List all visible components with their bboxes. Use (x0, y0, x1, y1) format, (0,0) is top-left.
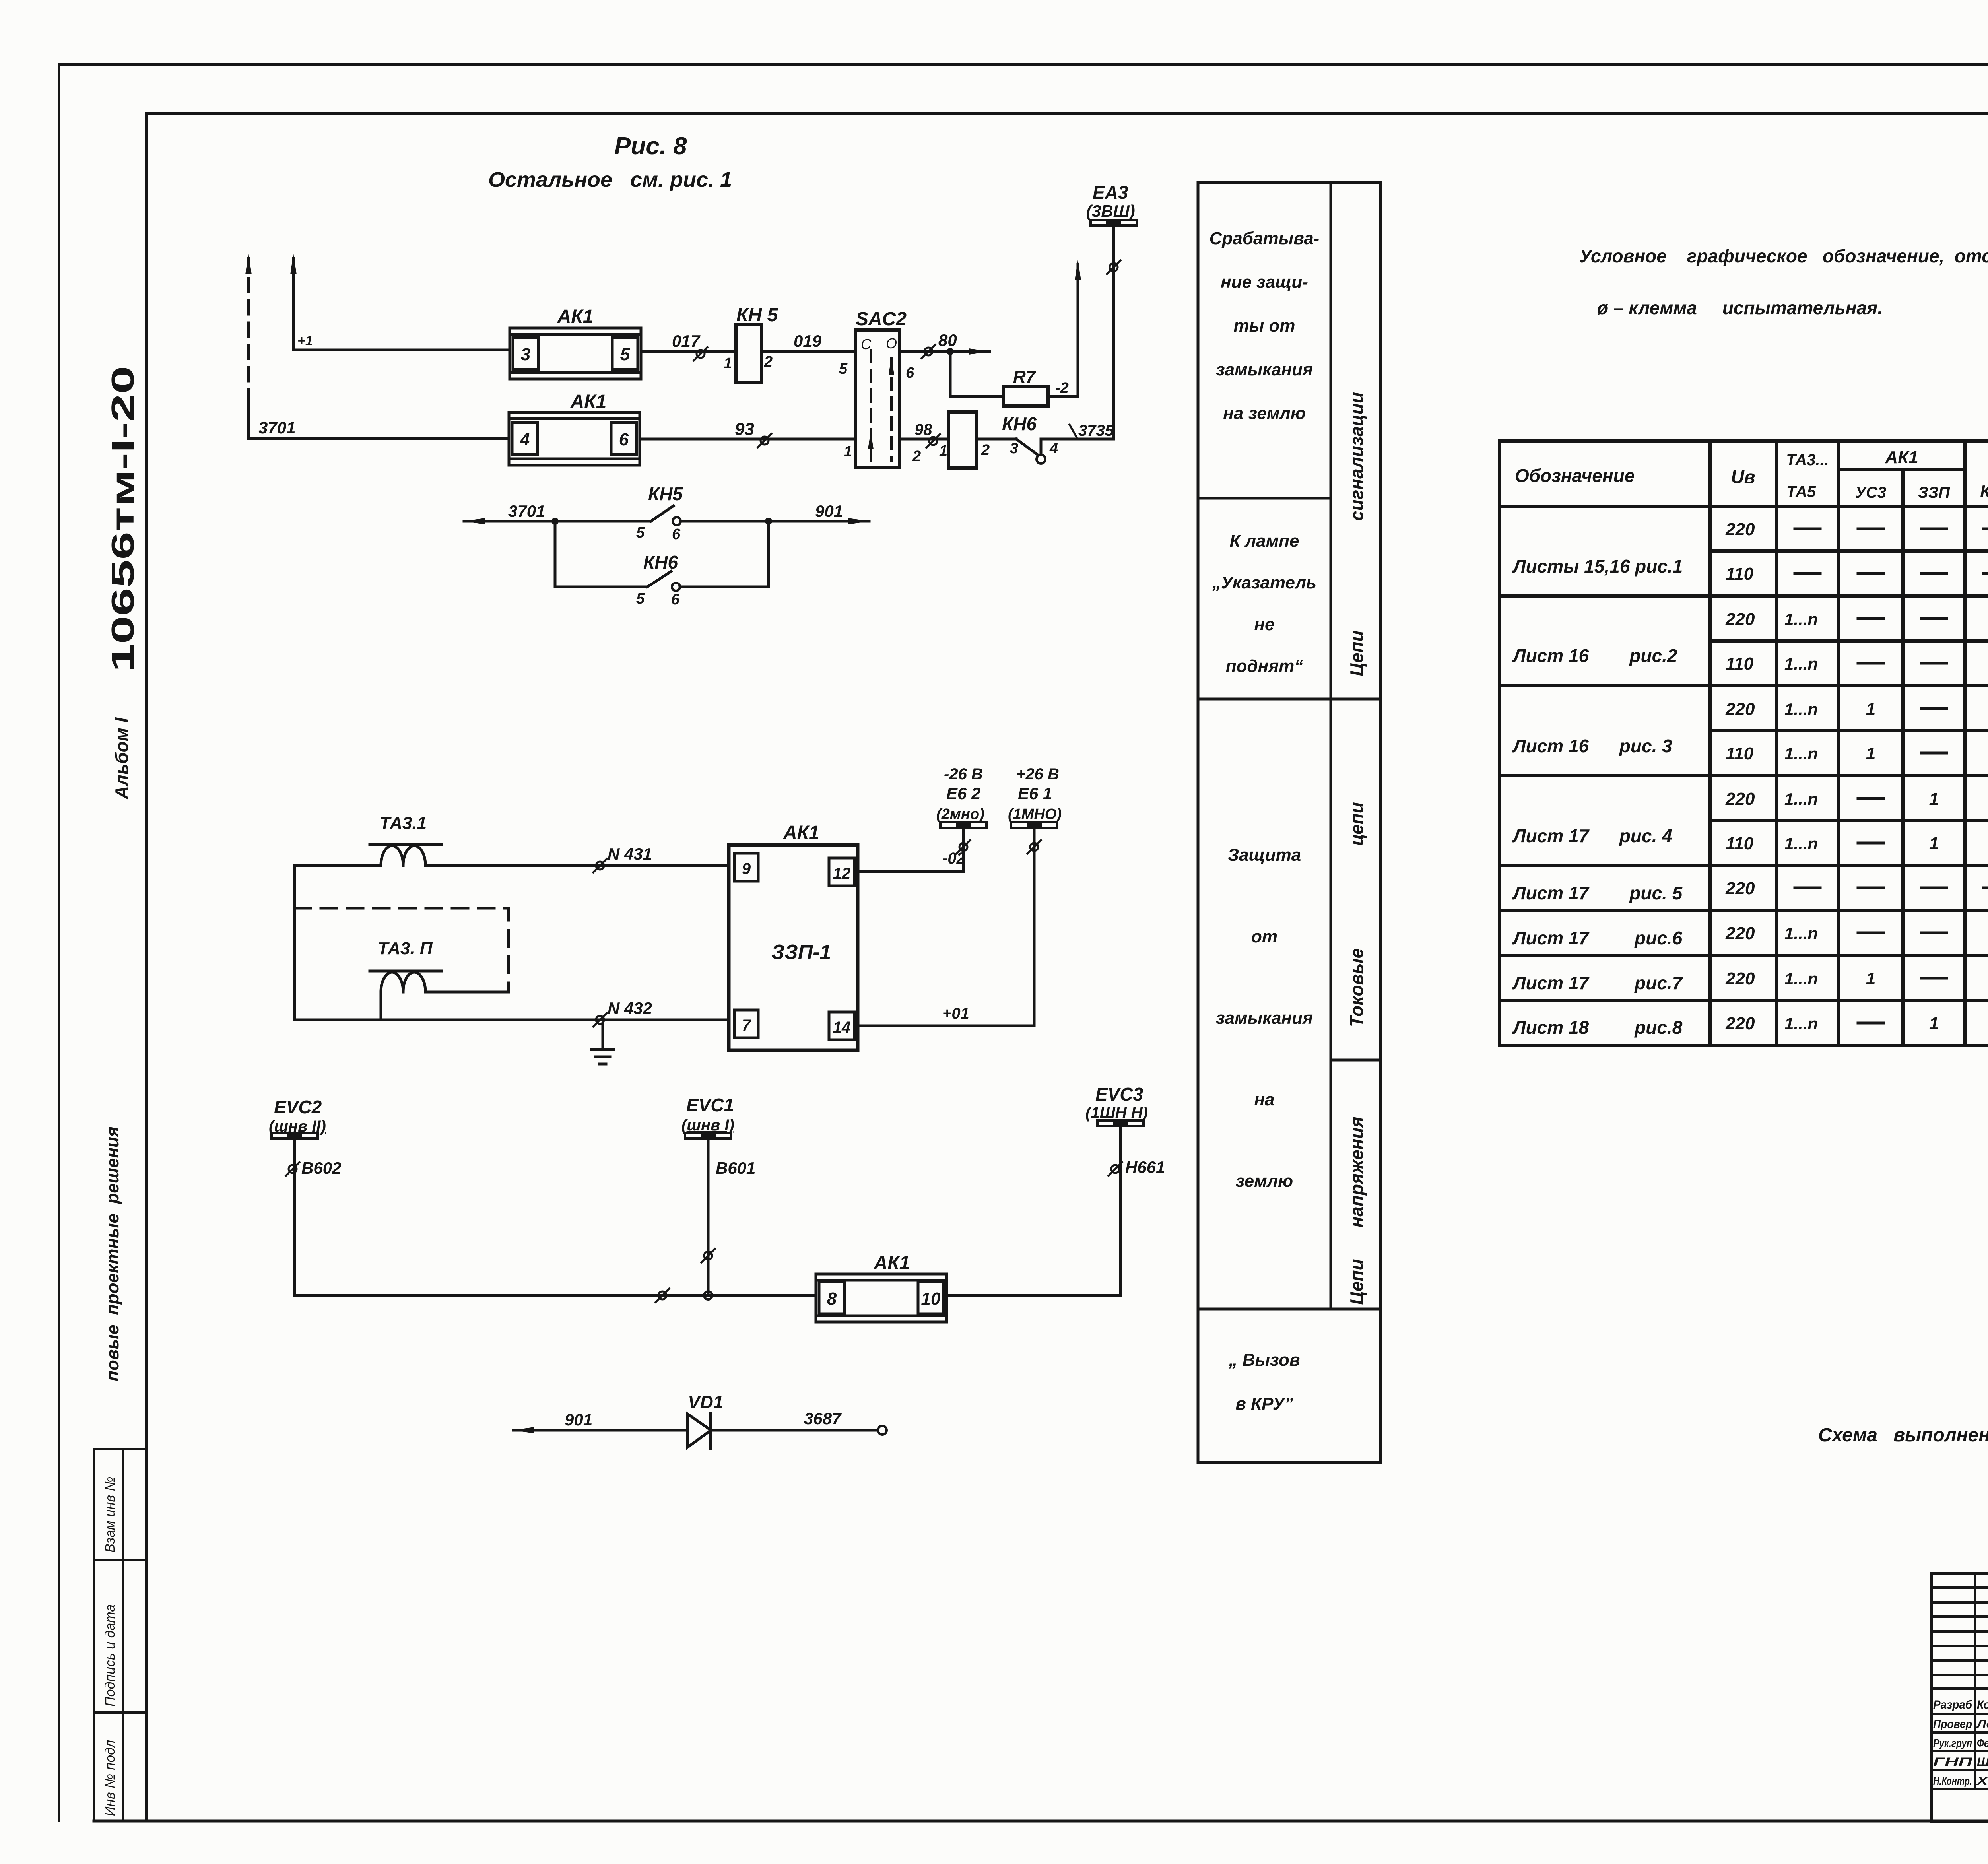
svg-text:АК1: АК1 (557, 306, 594, 327)
svg-text:110: 110 (1726, 564, 1754, 584)
svg-text:10656тм-I-20: 10656тм-I-20 (105, 366, 140, 672)
svg-text:3: 3 (1010, 440, 1018, 457)
wire 80 with arrow (899, 350, 990, 353)
svg-text:напряжения: напряжения (1346, 1116, 1367, 1227)
junction circle (704, 1291, 712, 1299)
open terminal circle (878, 1426, 887, 1435)
svg-text:220: 220 (1725, 610, 1755, 629)
svg-text:Цепи: Цепи (1346, 630, 1367, 676)
switch KH5 fixed circle (673, 517, 681, 525)
svg-text:6: 6 (671, 591, 680, 608)
svg-text:14: 14 (833, 1019, 851, 1036)
svg-text:(1ШН Н): (1ШН Н) (1085, 1104, 1148, 1122)
terminal EVC2 (ShNV II) (272, 1133, 318, 1138)
wire 019 (761, 350, 855, 353)
CT TA3.P (370, 971, 441, 992)
svg-text:SAC2: SAC2 (856, 309, 907, 330)
left margin stamp table (94, 1449, 147, 1821)
svg-text:1...n: 1...n (1784, 1014, 1818, 1033)
terminal EA3 riser (1112, 225, 1115, 439)
svg-text:Провер: Провер (1933, 1718, 1972, 1731)
svg-text:Хмелев: Хмелев (1976, 1775, 1988, 1788)
svg-text:замыкания: замыкания (1216, 1008, 1313, 1028)
wire 98 (899, 438, 948, 441)
svg-text:Остальное см. рис. 1: Остальное см. рис. 1 (488, 168, 732, 192)
wire to resistor R7 (950, 351, 1004, 396)
switch SAC2 (855, 330, 899, 468)
svg-text:110: 110 (1726, 834, 1754, 853)
terminal E61 (1MNO) (1011, 822, 1057, 828)
svg-text:К лампе: К лампе (1229, 531, 1299, 551)
wire to 901 (681, 520, 869, 523)
ground symbol (592, 1025, 614, 1064)
svg-text:3687: 3687 (804, 1409, 842, 1428)
terminal E61 riser (1033, 828, 1036, 1026)
svg-text:1: 1 (1866, 744, 1875, 763)
relay AK1 contact 8-10 (816, 1274, 947, 1322)
svg-text:Рис. 8: Рис. 8 (614, 132, 687, 160)
svg-text:93: 93 (735, 419, 754, 439)
svg-text:АК1: АК1 (783, 822, 819, 843)
wire 3735 (1040, 439, 1043, 455)
svg-text:Н.Контр.: Н.Контр. (1933, 1775, 1972, 1788)
svg-text:Лоткова: Лоткова (1976, 1718, 1988, 1731)
svg-text:Лист 17 рис.6: Лист 17 рис.6 (1512, 928, 1683, 948)
svg-text:EVC2: EVC2 (274, 1097, 322, 1117)
svg-text:Лист 17 рис. 5: Лист 17 рис. 5 (1512, 883, 1683, 903)
svg-text:КН5: КН5 (648, 483, 683, 504)
relay AK1 earth-fault unit ZZP-1 (729, 845, 858, 1050)
svg-text:901: 901 (815, 502, 843, 520)
svg-text:2: 2 (981, 442, 990, 458)
wire N431 (425, 864, 729, 867)
svg-text:(3ВШ): (3ВШ) (1086, 202, 1135, 220)
EVC2 riser (293, 1138, 296, 1295)
svg-text:не: не (1254, 615, 1274, 634)
svg-text:019: 019 (794, 332, 822, 350)
svg-text:1...n: 1...n (1784, 610, 1818, 629)
svg-text:VD1: VD1 (688, 1392, 723, 1412)
test clamp 98 (926, 434, 940, 448)
svg-text:(шнв II): (шнв II) (269, 1118, 326, 1135)
svg-text:(шнв I): (шнв I) (681, 1116, 734, 1134)
CT TA3.1 (370, 845, 441, 866)
svg-text:2: 2 (764, 353, 773, 370)
terminal E62 (2MNO) (940, 822, 986, 828)
svg-text:Условное графическое обоз: Условное графическое обозначение, отсутс… (1579, 246, 1988, 266)
svg-text:1: 1 (1866, 969, 1875, 988)
svg-text:1...n: 1...n (1784, 654, 1818, 673)
push button KH6 (948, 412, 977, 468)
terminal EVC3 (1ShNN) (1097, 1120, 1143, 1126)
wire left leg (295, 864, 381, 867)
svg-text:В602: В602 (301, 1159, 341, 1177)
wire 93 (640, 438, 855, 441)
svg-text:АК1: АК1 (874, 1252, 910, 1274)
test clamp 017 (694, 347, 707, 361)
svg-text:3: 3 (521, 345, 530, 364)
svg-text:Лист 16 рис.2: Лист 16 рис.2 (1512, 645, 1677, 666)
svg-text:Федоровская: Федоровская (1977, 1737, 1988, 1750)
svg-text:О: О (886, 335, 897, 351)
svg-text:КН 5: КН 5 (736, 305, 779, 326)
relay AK1 contact 3-5 (510, 328, 641, 379)
svg-text:4: 4 (520, 430, 530, 449)
svg-text:220: 220 (1725, 699, 1755, 719)
test clamp B602 (286, 1162, 299, 1176)
svg-text:Токовые: Токовые (1346, 948, 1367, 1027)
svg-text:ты от: ты от (1234, 316, 1295, 336)
svg-text:N 432: N 432 (608, 999, 652, 1017)
KH6 branch return wire (680, 521, 769, 587)
svg-text:3701: 3701 (508, 502, 545, 520)
svg-text:80: 80 (938, 331, 957, 349)
svg-text:Схема выполнена на лист: Схема выполнена на листах 15, 16, 17, 18… (1818, 1425, 1988, 1446)
svg-text:1: 1 (844, 443, 852, 460)
svg-text:+26 В: +26 В (1016, 765, 1059, 783)
push button KH5 (736, 325, 761, 382)
svg-text:R7: R7 (1013, 367, 1037, 386)
svg-text:замыкания: замыкания (1216, 360, 1313, 379)
circuit function band (1198, 183, 1380, 1462)
svg-text:1: 1 (1929, 789, 1939, 809)
svg-text:5: 5 (636, 524, 645, 541)
svg-text:Лист 18 рис.8: Лист 18 рис.8 (1512, 1017, 1683, 1038)
svg-text:1...n: 1...n (1784, 790, 1818, 808)
junction (947, 348, 954, 355)
svg-text:1: 1 (1866, 699, 1875, 719)
svg-text:землю: землю (1236, 1171, 1293, 1191)
wire +1 riser with arrow (293, 258, 510, 350)
svg-text:+1: +1 (297, 333, 313, 348)
svg-text:(2мно): (2мно) (936, 806, 984, 823)
svg-text:ТА3. П: ТА3. П (378, 939, 433, 958)
wire 3687 (711, 1429, 878, 1432)
test clamp 80 (922, 345, 935, 358)
svg-text:Листы 15,16 рис.1: Листы 15,16 рис.1 (1512, 556, 1683, 577)
svg-text:Цепи: Цепи (1346, 1259, 1367, 1305)
svg-text:ТА3.1: ТА3.1 (380, 814, 427, 833)
svg-text:8: 8 (827, 1289, 837, 1309)
test clamp EA3 (1107, 260, 1120, 274)
svg-text:220: 220 (1725, 520, 1755, 539)
wire right leg (425, 991, 509, 994)
svg-text:(1МНО): (1МНО) (1008, 806, 1062, 823)
svg-text:Альбом I: Альбом I (111, 717, 132, 800)
test clamp N432 (593, 1013, 607, 1027)
svg-text:Инв № подл: Инв № подл (103, 1740, 118, 1816)
test clamp 93 (758, 434, 771, 447)
wire 017 (641, 350, 736, 353)
svg-text:С: С (861, 336, 872, 352)
svg-text:220: 220 (1725, 1014, 1755, 1033)
svg-text:7: 7 (742, 1017, 751, 1034)
svg-text:10: 10 (921, 1289, 941, 1309)
svg-text:Разраб: Разраб (1933, 1698, 1972, 1711)
test clamp E61 (1027, 840, 1041, 854)
svg-text:12: 12 (833, 865, 851, 882)
svg-text:ние защи-: ние защи- (1221, 272, 1308, 292)
svg-text:„ Вызов: „ Вызов (1229, 1350, 1300, 1370)
terminal E62 riser (962, 828, 965, 872)
svg-text:+01: +01 (942, 1005, 969, 1022)
svg-text:УС3: УС3 (1855, 484, 1886, 501)
svg-text:220: 220 (1725, 969, 1755, 988)
svg-text:КН6: КН6 (643, 552, 678, 573)
wire N432 (295, 1019, 729, 1021)
svg-text:110: 110 (1726, 654, 1754, 674)
svg-text:N 431: N 431 (608, 845, 652, 863)
dashed link wire (295, 908, 509, 992)
wire 3701 riser (dashed) (247, 278, 250, 390)
svg-text:КН6: КН6 (1980, 482, 1988, 501)
svg-text:901: 901 (565, 1410, 592, 1429)
svg-text:-26 В: -26 В (944, 765, 983, 783)
svg-text:повые проектные решения: повые проектные решения (103, 1126, 122, 1381)
wire -2 riser with arrow (1048, 264, 1078, 396)
junction (551, 518, 559, 525)
test clamp H661 (1109, 1162, 1122, 1176)
svg-text:поднят“: поднят“ (1226, 656, 1303, 676)
svg-text:6: 6 (906, 365, 914, 381)
terminal EVC1 (ShNV I) (685, 1133, 731, 1138)
switch KH5 blade (651, 506, 674, 521)
svg-text:в КРУ”: в КРУ” (1235, 1394, 1293, 1414)
test clamp bus (656, 1289, 669, 1302)
svg-text:1: 1 (1929, 834, 1939, 853)
svg-text:„Указатель: „Указатель (1212, 573, 1316, 592)
svg-text:на: на (1254, 1090, 1274, 1109)
svg-text:Обозначение: Обозначение (1515, 465, 1635, 486)
svg-text:Лист 17 рис.7: Лист 17 рис.7 (1512, 973, 1683, 993)
svg-text:1...n: 1...n (1784, 744, 1818, 763)
test clamp N431 (593, 859, 607, 872)
voltage bus wire (295, 1294, 816, 1297)
svg-text:Рук.груп: Рук.груп (1933, 1737, 1972, 1750)
svg-text:Взам инв №: Взам инв № (103, 1477, 118, 1553)
svg-text:ø – клемма испытательная.: ø – клемма испытательная. (1597, 297, 1883, 318)
junction (765, 518, 772, 525)
EVC1 riser (707, 1138, 710, 1295)
svg-text:5: 5 (636, 590, 645, 607)
test clamp E62 (957, 840, 970, 854)
svg-text:3735: 3735 (1078, 422, 1114, 439)
contact KH6 blade (977, 438, 1016, 441)
pin box 14 (829, 1012, 854, 1040)
signature table (1932, 1573, 1988, 1822)
svg-text:1...n: 1...n (1784, 834, 1818, 853)
svg-text:110: 110 (1726, 744, 1754, 763)
svg-text:КН6: КН6 (1002, 414, 1037, 434)
svg-text:EVC1: EVC1 (686, 1095, 734, 1115)
svg-text:1...n: 1...n (1784, 700, 1818, 718)
wire left leg down (380, 992, 382, 1020)
resistor R7 (1004, 387, 1048, 406)
svg-text:Е6 1: Е6 1 (1018, 784, 1052, 803)
svg-text:6: 6 (619, 430, 629, 449)
svg-text:-02: -02 (942, 850, 965, 867)
switch KH6 fixed circle (672, 583, 680, 591)
svg-text:220: 220 (1725, 789, 1755, 809)
svg-text:1...n: 1...n (1784, 924, 1818, 943)
diode VD1 (687, 1414, 711, 1447)
EVC3 riser (1119, 1126, 1122, 1295)
svg-text:EVC3: EVC3 (1095, 1084, 1143, 1105)
svg-text:Срабатыва-: Срабатыва- (1209, 229, 1320, 248)
svg-text:от: от (1251, 927, 1277, 946)
KH6 branch wire (555, 521, 647, 587)
svg-text:1: 1 (939, 443, 947, 459)
svg-text:ТА5: ТА5 (1786, 483, 1816, 501)
svg-text:3701: 3701 (258, 418, 295, 437)
svg-text:ТА3...: ТА3... (1786, 451, 1829, 469)
left vertical wire (293, 866, 296, 1020)
svg-text:1...n: 1...n (1784, 969, 1818, 988)
svg-text:цепи: цепи (1346, 802, 1367, 846)
svg-text:Шифрина: Шифрина (1977, 1755, 1988, 1769)
svg-text:сигнализации: сигнализации (1346, 392, 1367, 521)
svg-text:98: 98 (914, 421, 932, 439)
svg-text:Лист 16 рис. 3: Лист 16 рис. 3 (1512, 736, 1672, 756)
svg-text:ЕА3: ЕА3 (1093, 182, 1128, 203)
pin box 7 (734, 1010, 758, 1038)
svg-text:Н661: Н661 (1125, 1158, 1165, 1177)
svg-text:ГНП: ГНП (1933, 1755, 1973, 1769)
svg-text:Е6 2: Е6 2 (946, 784, 980, 803)
svg-text:1: 1 (1929, 1014, 1939, 1033)
pin box 9 (734, 853, 758, 881)
wire 3701-901 (464, 520, 651, 523)
svg-text:АК1: АК1 (570, 391, 607, 412)
svg-text:220: 220 (1725, 924, 1755, 943)
svg-text:5: 5 (839, 361, 848, 377)
pin box 12 (829, 858, 854, 886)
contact KH6 fixed circle (1037, 455, 1045, 464)
svg-text:2: 2 (912, 448, 921, 465)
svg-text:4: 4 (1049, 440, 1058, 457)
svg-text:Корпунина: Корпунина (1977, 1698, 1988, 1711)
svg-text:1: 1 (724, 355, 732, 372)
wire 901 (513, 1429, 687, 1432)
svg-text:В601: В601 (716, 1159, 755, 1177)
svg-text:9: 9 (742, 860, 751, 878)
executions table grid (1500, 441, 1988, 1045)
svg-text:-2: -2 (1055, 380, 1069, 396)
svg-text:220: 220 (1725, 879, 1755, 898)
svg-text:ЗЗП-1: ЗЗП-1 (771, 941, 831, 964)
wire -02 (858, 870, 963, 873)
svg-text:5: 5 (620, 345, 630, 364)
svg-text:АК1: АК1 (1885, 448, 1918, 467)
wire from pin 10 (947, 1294, 1120, 1297)
wire +01 (858, 1025, 1034, 1027)
relay AK1 contact 4-6 (509, 412, 640, 465)
terminal EA3 (3BSh) (1091, 220, 1137, 225)
svg-text:ЗЗП: ЗЗП (1918, 484, 1950, 501)
svg-text:Лист 17 рис. 4: Лист 17 рис. 4 (1512, 825, 1672, 846)
svg-text:Uв: Uв (1731, 466, 1755, 487)
svg-text:Подпись и дата: Подпись и дата (103, 1604, 118, 1707)
svg-text:Защита: Защита (1228, 845, 1301, 865)
svg-text:6: 6 (672, 526, 681, 543)
svg-text:на землю: на землю (1223, 404, 1306, 423)
switch KH6 blade (647, 571, 671, 587)
svg-text:017: 017 (672, 332, 701, 350)
test clamp EVC1 (701, 1249, 715, 1262)
